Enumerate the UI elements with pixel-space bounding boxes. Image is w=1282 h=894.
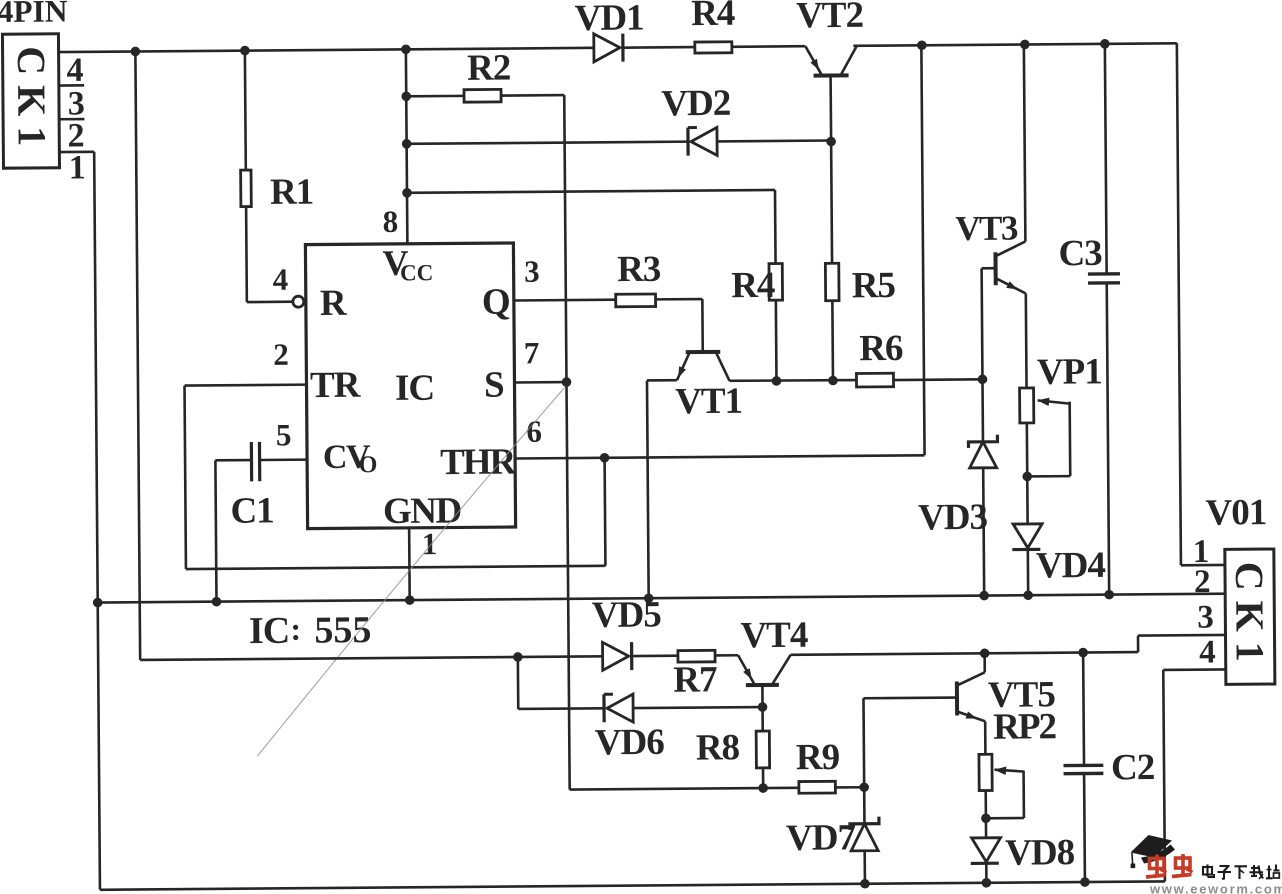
svg-text:VT1: VT1: [675, 381, 742, 423]
label R7: [673, 659, 717, 700]
potentiometer RP2: [979, 754, 1024, 818]
wire VT4 collector line: [791, 635, 1226, 655]
svg-text:VD3: VD3: [918, 497, 988, 539]
connector CK1 (right, V01): [1225, 549, 1275, 684]
wire VT3 base column: [982, 268, 983, 441]
label R4 (top): [691, 0, 735, 34]
svg-text:VD6: VD6: [595, 722, 665, 764]
node THR junction: [600, 453, 610, 463]
node rail junction A: [131, 47, 141, 57]
pin name THR: [440, 441, 518, 483]
pin 4 label (CK1 right): [1199, 634, 1215, 670]
svg-text:VD5: VD5: [592, 594, 662, 636]
diode VD5: [603, 642, 632, 670]
svg-text:4: 4: [66, 52, 83, 89]
svg-text:5: 5: [276, 417, 291, 452]
wire rail to CK1right pin1: [1177, 43, 1225, 565]
svg-text:2: 2: [273, 337, 288, 372]
svg-text:R5: R5: [852, 265, 896, 306]
wire top rail (left of VT2): [59, 46, 806, 52]
node R2 tap on pin8 column: [401, 91, 411, 101]
wire VT2 base to R5: [830, 141, 834, 263]
label VD6: [595, 722, 665, 764]
svg-text:VD4: VD4: [1036, 545, 1106, 587]
svg-text:RP2: RP2: [993, 706, 1056, 747]
pin 4 circle (R input): [293, 296, 304, 307]
pin 1 label (CK1 left): [69, 149, 85, 186]
node R6 right junction: [978, 374, 988, 384]
resistor R3: [616, 294, 656, 307]
wire VD5 junction to VD6: [518, 656, 604, 709]
svg-text:R: R: [320, 283, 348, 324]
svg-text:R2: R2: [467, 48, 511, 89]
node R4mid tap on pin8 column: [402, 188, 412, 198]
node VP1 wiper junction: [1022, 472, 1032, 482]
pin 2 label (CK1 left): [67, 117, 83, 154]
wire VD2 to VT2 base: [717, 139, 831, 142]
svg-text:4: 4: [1199, 634, 1215, 670]
wire VD4 to bus: [1027, 548, 1030, 595]
label VD2: [661, 83, 730, 125]
node VD8 on bottom bus: [982, 878, 992, 888]
svg-text:R8: R8: [696, 727, 740, 768]
svg-text:S: S: [484, 365, 504, 406]
node RP2 wiper junction: [981, 813, 991, 823]
node rail junction B: [240, 46, 250, 56]
svg-text:6: 6: [526, 414, 541, 449]
pin name GND: [383, 490, 461, 532]
capacitor C2: [1063, 652, 1105, 882]
node S pin junction: [562, 377, 572, 387]
node VT5 collector junction: [980, 648, 990, 658]
diode VD2: [688, 127, 717, 155]
resistor R5: [825, 263, 839, 301]
svg-text::: :: [290, 611, 301, 647]
pin 3 label: [524, 254, 539, 289]
wire top rail (right of VT2): [853, 43, 1176, 46]
node R4mid bottom junction: [772, 376, 782, 386]
svg-text:R7: R7: [673, 659, 717, 700]
pin 2 wire (TR): [185, 383, 307, 387]
svg-text:Q: Q: [482, 282, 510, 323]
wire R4(mid) to collector line: [775, 300, 778, 381]
svg-text:C1: C1: [230, 490, 274, 531]
svg-text:8: 8: [383, 204, 398, 239]
label RP2: [993, 706, 1056, 747]
svg-text:O: O: [359, 452, 378, 478]
svg-text:VD2: VD2: [661, 83, 730, 125]
wire RP2 to VD8: [984, 791, 987, 838]
node VD3 on bus: [979, 591, 989, 601]
svg-text:R4: R4: [731, 265, 775, 306]
pin name R: [320, 283, 348, 324]
svg-text:C2: C2: [1111, 747, 1155, 788]
svg-text:1: 1: [422, 526, 437, 561]
label 4PIN: [0, 0, 68, 29]
svg-text:C3: C3: [1058, 233, 1102, 274]
pin 7 wire (S): [514, 381, 566, 384]
svg-text:IC: IC: [249, 610, 290, 652]
node C2 on bottom bus: [1080, 877, 1090, 887]
pin 3 label (CK1 right): [1197, 600, 1213, 636]
svg-text:R6: R6: [859, 328, 903, 369]
pin 7 label: [524, 335, 539, 370]
watermark chongchong red logo text: [1146, 854, 1193, 877]
transistor VT3: [981, 241, 1025, 293]
watermark text dianzi xiazaizhan: [1203, 865, 1280, 880]
pin name Q: [482, 282, 510, 323]
wire R8 to R9 line: [762, 768, 765, 788]
svg-text:R4: R4: [691, 0, 735, 34]
pin 6 wire (THR): [515, 455, 924, 458]
capacitor C1: [215, 442, 260, 602]
svg-text:CC: CC: [400, 260, 433, 285]
label VT4: [740, 615, 808, 657]
svg-text:CK1: CK1: [1227, 562, 1273, 672]
node rail junction F: [1100, 39, 1110, 49]
label VD7: [786, 817, 856, 859]
pin 1 label: [422, 526, 437, 561]
label VT2: [796, 0, 863, 36]
svg-text:4: 4: [273, 262, 288, 297]
svg-text:TR: TR: [310, 365, 362, 406]
wire VT5 base: [863, 698, 957, 788]
wire R3 to VT1 base: [656, 299, 703, 352]
node VT4 base junction: [758, 702, 768, 712]
svg-text:1: 1: [69, 149, 85, 186]
pin 3 wire (Q): [514, 298, 616, 301]
svg-text:VT2: VT2: [796, 0, 863, 36]
wire VT5 collector: [983, 653, 986, 672]
wire R7 to VT4: [715, 654, 738, 657]
svg-text:V01: V01: [1205, 492, 1266, 533]
wire R2 to S-column: [501, 95, 566, 382]
transistor VT1: [677, 352, 730, 381]
transistor VT2: [805, 46, 857, 76]
svg-text:R3: R3: [617, 249, 661, 290]
diode VD4: [1012, 524, 1042, 550]
wire VT3 emitter to VP1: [1025, 293, 1028, 387]
svg-text:R1: R1: [270, 172, 314, 213]
label VD1: [574, 0, 643, 39]
label C2: [1111, 747, 1155, 788]
wire VT5 emitter to RP2: [984, 721, 987, 754]
node bus left corner: [93, 598, 103, 608]
wire VT3 collector to rail: [1024, 44, 1026, 241]
svg-text:7: 7: [524, 335, 539, 370]
svg-text:VP1: VP1: [1037, 351, 1102, 393]
svg-text:THR: THR: [440, 441, 518, 483]
label R2: [467, 48, 511, 89]
node VT1 emitter on bus: [644, 593, 654, 603]
wire TR loop: [185, 382, 606, 569]
resistor R6: [856, 373, 893, 387]
wire CK1left pin2 loop: [59, 152, 100, 890]
svg-text:2: 2: [1194, 564, 1210, 600]
wire VT1 collector line: [729, 380, 856, 381]
label VP1: [1037, 351, 1102, 393]
label VD5: [592, 594, 662, 636]
resistor R8: [756, 731, 769, 768]
IC U1 (555) body: [305, 243, 515, 529]
pin 6 label: [526, 414, 541, 449]
resistor R2: [464, 89, 501, 102]
wire VD5 feeder: [135, 48, 602, 660]
label VD8: [1005, 832, 1075, 874]
wire main bus (pin2): [98, 594, 1225, 603]
svg-text:VD1: VD1: [574, 0, 643, 39]
wire R5 to collector line: [831, 301, 834, 381]
wire VD6 to VT4 base column: [633, 707, 763, 708]
pin 3 label (CK1 left): [59, 85, 85, 122]
label R8: [696, 727, 740, 768]
transistor VT4: [738, 655, 791, 685]
label IC (center): [395, 368, 434, 409]
label R4 (mid): [731, 265, 775, 306]
svg-text:3: 3: [524, 254, 539, 289]
label VD3: [918, 497, 988, 539]
wire CK1right pin4: [1163, 669, 1227, 881]
node R8 bottom junction: [758, 783, 768, 793]
diode VD1: [594, 34, 623, 62]
label VT5: [988, 674, 1056, 716]
node VT2 base junction: [826, 137, 836, 147]
pin 8 label: [383, 204, 398, 239]
svg-text:4PIN: 4PIN: [0, 0, 68, 29]
pin name CV: [323, 439, 378, 479]
resistor R4 (top): [695, 42, 732, 53]
connector CK1 (left, 4PIN): [2, 34, 59, 168]
pin 4 label (CK1 left): [59, 52, 85, 89]
wire pin8 to VD2: [407, 142, 688, 144]
label R5: [852, 265, 896, 306]
label VT1: [675, 381, 742, 423]
wire R6 to VT3 base column: [893, 378, 982, 381]
svg-text:VT3: VT3: [955, 209, 1018, 248]
pin name S: [484, 365, 504, 406]
label VD4: [1036, 545, 1106, 587]
wire pin8 to R2: [406, 95, 464, 98]
node R9 right junction: [859, 782, 869, 792]
crease artifact: [255, 388, 568, 756]
svg-text:VD7: VD7: [786, 817, 856, 859]
node VD4 on bus: [1023, 590, 1033, 600]
wire R9 to VD7 column: [835, 786, 864, 789]
pin 5 wire (CV): [260, 458, 307, 461]
label IC : 555: [249, 609, 372, 652]
wire VD3 to bus: [983, 468, 984, 596]
node C1 junction on bus: [212, 597, 222, 607]
transistor VT5: [957, 672, 985, 721]
diode VD3 (zener): [968, 435, 997, 468]
pin name TR: [310, 365, 362, 406]
wire bottom bus: [100, 881, 1165, 889]
node R5 bottom junction: [828, 376, 838, 386]
node GND junction on bus: [405, 595, 415, 605]
resistor R9: [799, 781, 836, 793]
resistor R1: [240, 50, 293, 302]
capacitor C3: [1086, 44, 1122, 595]
node C3 on bus: [1104, 590, 1114, 600]
wire S column down: [566, 380, 798, 789]
pin 5 label: [276, 417, 291, 452]
svg-text:VD8: VD8: [1005, 832, 1075, 874]
diode VD6: [604, 694, 633, 722]
wire THR rail riser: [921, 45, 924, 455]
pin 1 label (CK1 right): [1193, 534, 1209, 570]
potentiometer VP1: [1020, 388, 1071, 477]
svg-text:IC: IC: [395, 368, 434, 409]
node rail junction C: [401, 44, 411, 54]
diode VD7 (zener): [850, 817, 879, 851]
wire pin8 to R4(mid): [407, 190, 776, 266]
node VD7 on bottom bus: [860, 879, 870, 889]
node VD2 tap on pin8 column: [402, 139, 412, 149]
label V01: [1205, 492, 1266, 533]
diode VD8: [971, 838, 1001, 864]
wire VT1 emitter down: [647, 380, 679, 598]
wire VP1 to VD4: [1026, 423, 1029, 524]
label R1: [270, 172, 314, 213]
pin 2 label (CK1 right): [1194, 564, 1210, 600]
label R3: [617, 249, 661, 290]
watermark graduation cap: [1131, 835, 1176, 868]
wire VD8 to bottom bus: [985, 863, 988, 882]
svg-text:3: 3: [1197, 600, 1213, 636]
pin name VCC: [382, 243, 433, 286]
wire VD7 to bottom bus: [863, 851, 866, 884]
svg-text:555: 555: [314, 609, 371, 651]
watermark url www.eeworm.com: [1149, 882, 1282, 894]
pin 1 wire (GND): [408, 528, 411, 600]
label VT3: [955, 209, 1018, 248]
svg-text:www.eeworm.com: www.eeworm.com: [1149, 882, 1282, 894]
label R9: [796, 737, 840, 778]
pin 8 wire: [406, 49, 408, 243]
resistor R4 (mid): [769, 263, 783, 300]
wire R9 to VD7: [863, 787, 866, 823]
node rail junction D: [917, 40, 927, 50]
svg-text:VT4: VT4: [740, 615, 808, 657]
svg-text:CK1: CK1: [9, 46, 55, 156]
svg-text:R9: R9: [796, 737, 840, 778]
node VD5 branch junction: [513, 652, 523, 662]
wire VT4 base down: [761, 685, 764, 731]
pin 2 label: [273, 337, 288, 372]
wire VT2 base down: [829, 75, 832, 141]
label R6: [859, 328, 903, 369]
label C1: [230, 490, 274, 531]
pin 4 label: [273, 262, 288, 297]
label C3: [1058, 233, 1102, 274]
node C2 top junction: [1078, 648, 1088, 658]
node rail junction E: [1020, 40, 1030, 50]
wire VD5 to R7: [633, 654, 678, 657]
resistor R7: [678, 650, 715, 662]
